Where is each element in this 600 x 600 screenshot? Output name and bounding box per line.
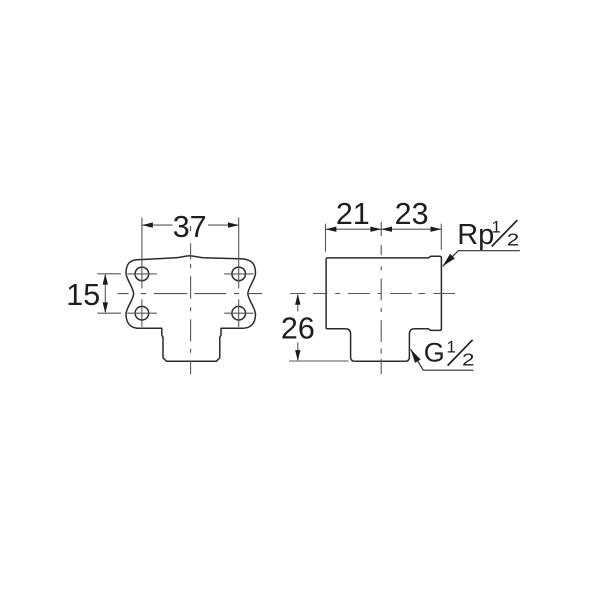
right view vertical centerline: [380, 222, 382, 375]
left view flange outline: [126, 256, 256, 361]
dimension 21 arrows: [326, 227, 382, 232]
hole top-left: [135, 267, 149, 281]
right view body outline: [326, 256, 441, 361]
svg-text:37: 37: [173, 210, 207, 244]
dimension 21 23 lines: [326, 224, 442, 252]
left view horizontal centerline: [118, 293, 263, 295]
leader Rp 1/2: [443, 251, 520, 267]
leader G 1/2: [411, 349, 474, 370]
left view vertical centerline: [190, 226, 192, 375]
dimension 23 arrows: [381, 227, 441, 232]
hole top-right: [232, 267, 246, 281]
dimension 15 arrows: [103, 274, 108, 313]
svg-text:2: 2: [462, 351, 474, 370]
right view horizontal centerline: [290, 293, 455, 295]
svg-text:2: 2: [507, 231, 519, 250]
dimension 37 arrows: [142, 222, 239, 227]
dimension 26 lines: [289, 295, 349, 361]
svg-text:1: 1: [446, 337, 455, 356]
hole bottom-left: [135, 306, 149, 320]
hole bottom-right: [232, 306, 246, 320]
svg-text:26: 26: [281, 312, 315, 346]
svg-text:G: G: [424, 338, 445, 368]
svg-text:1: 1: [491, 217, 500, 236]
svg-text:23: 23: [395, 197, 429, 231]
dimension 37 lines: [142, 224, 238, 226]
svg-text:15: 15: [66, 278, 100, 312]
svg-text:Rp: Rp: [457, 219, 494, 251]
hole center marks: [127, 218, 253, 327]
dimension 26 arrows: [295, 294, 300, 361]
svg-text:21: 21: [336, 197, 370, 231]
dimension 15 lines: [97, 274, 121, 313]
